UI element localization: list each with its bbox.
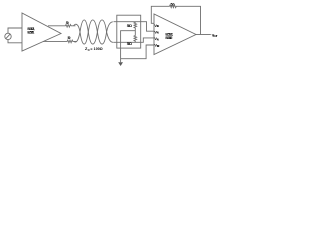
svg-text:OUT: OUT — [213, 34, 218, 38]
svg-text:50: 50 — [68, 36, 71, 40]
svg-text:IN: IN — [157, 31, 159, 35]
svg-text:O: O — [88, 48, 90, 52]
svg-text:EL5371: EL5371 — [27, 31, 34, 35]
svg-text:IN: IN — [157, 37, 159, 41]
svg-text:REF: REF — [157, 44, 160, 48]
svg-text:50Ω: 50Ω — [127, 24, 132, 28]
svg-text:50Ω: 50Ω — [127, 42, 132, 46]
svg-text:FB: FB — [157, 24, 159, 28]
svg-text:EL5372: EL5372 — [165, 36, 172, 40]
svg-text:50: 50 — [171, 3, 175, 7]
svg-text:50: 50 — [66, 21, 69, 25]
svg-text:= 100Ω: = 100Ω — [90, 47, 102, 51]
